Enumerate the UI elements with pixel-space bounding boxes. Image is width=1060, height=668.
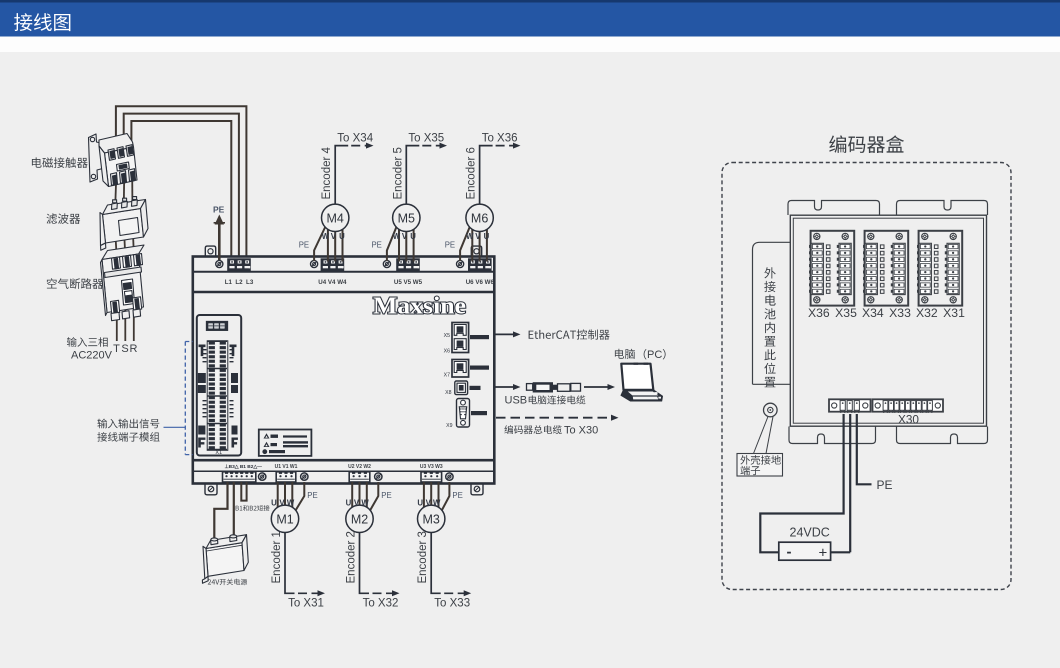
svg-text:To X30: To X30: [564, 424, 598, 436]
svg-text:To X34: To X34: [337, 132, 373, 144]
svg-text:AC220V: AC220V: [71, 350, 113, 362]
drive face bottom line: [194, 459, 495, 462]
label 24V开关电源: [208, 579, 247, 586]
terminal block U2 V2 W2: [349, 472, 370, 482]
label 端子: [741, 466, 761, 475]
terminal block power/regen B1 B2: [223, 472, 256, 482]
terminal block U1 V1 W1: [276, 472, 296, 482]
wire X30 to 24VDC minus: [760, 414, 843, 552]
svg-text:T: T: [113, 343, 120, 355]
encoder unit bottom flange: [789, 427, 876, 444]
svg-text:PE: PE: [213, 205, 225, 215]
label B3 B1 B2 terminals: [225, 464, 263, 470]
svg-text:R: R: [130, 343, 138, 355]
svg-text:U3 V3 W3: U3 V3 W3: [420, 464, 443, 470]
battery compartment strip: [753, 242, 791, 384]
I/O terminal module X1: [197, 315, 241, 456]
chassis ground terminal: [764, 403, 778, 417]
PE screw terminal bottom M1: [301, 473, 308, 480]
arrowhead X32: [392, 590, 400, 596]
PE screw terminal M4: [311, 260, 318, 267]
label 电脑(PC): [615, 349, 635, 359]
arrow to USB cable: [496, 384, 521, 390]
terminal block U5 V5 W5: [396, 258, 420, 271]
svg-text:X9: X9: [446, 423, 452, 429]
svg-text:W: W: [393, 232, 401, 241]
label 编码器总电缆: [504, 425, 562, 434]
svg-text:PE: PE: [877, 478, 893, 492]
svg-text:U: U: [339, 232, 345, 241]
USB cable: [527, 382, 581, 392]
motor M5: [393, 204, 420, 231]
wires drive to motor M2: [352, 482, 378, 511]
arrow to EtherCAT controller: [496, 331, 521, 337]
wires motor M5 to drive: [387, 226, 414, 262]
label 空气断路器: [47, 278, 103, 289]
svg-text:Encoder 5: Encoder 5: [392, 147, 404, 199]
terminal block L1 L2 L3: [227, 258, 251, 271]
7-seg display: [208, 323, 224, 328]
arrow USB cable to PC: [584, 384, 615, 390]
wires drive to motor M1: [278, 482, 305, 511]
svg-text:U4 V4 W4: U4 V4 W4: [318, 279, 347, 286]
encoder unit bottom flange: [897, 427, 988, 444]
drive mounting tab bottom-left: [205, 483, 217, 495]
title 编码器盒: [829, 135, 904, 153]
PE screw terminal main: [216, 260, 223, 267]
svg-text:Encoder 1: Encoder 1: [271, 531, 283, 583]
svg-text:U5 V5 W5: U5 V5 W5: [394, 279, 423, 286]
svg-text:W: W: [361, 499, 369, 508]
terminal block U6 V6 W6: [468, 258, 492, 271]
X30 terminal block right: [873, 399, 944, 411]
svg-text:V: V: [402, 232, 408, 241]
wire contactor to filter: [115, 174, 132, 207]
svg-text:M6: M6: [471, 211, 488, 225]
wire 24V supply -: [233, 482, 235, 535]
encoder cable dashed to X33: [444, 592, 464, 594]
svg-text:U: U: [484, 232, 490, 241]
svg-text:24VDC: 24VDC: [790, 526, 830, 540]
svg-text:（PC）: （PC）: [636, 348, 673, 361]
wires drive to motor M3: [424, 482, 450, 511]
svg-text:L1 L2 L3: L1 L2 L3: [225, 279, 254, 286]
motor M6: [466, 204, 493, 231]
wire encoder 5 feed: [406, 146, 419, 205]
wire 24V supply +: [214, 482, 227, 540]
svg-text:Encoder 4: Encoder 4: [321, 146, 333, 199]
wire breaker to T S R: [117, 308, 134, 341]
svg-text:-: -: [787, 544, 792, 561]
encoder cable dashed to X31: [298, 592, 318, 594]
drive face top line: [194, 291, 495, 293]
svg-text:Encoder 6: Encoder 6: [466, 147, 478, 199]
svg-text:X6: X6: [444, 349, 450, 355]
svg-text:X8: X8: [445, 390, 451, 396]
svg-text:Encoder 3: Encoder 3: [417, 531, 429, 583]
svg-text:PE: PE: [371, 241, 381, 250]
PE screw terminal bottom M2: [375, 473, 382, 480]
label 电磁接触器: [32, 157, 88, 168]
svg-text:U: U: [417, 499, 423, 508]
drive bottom terminal band line: [194, 470, 495, 472]
svg-text:PE: PE: [381, 491, 391, 500]
X9 port text: [471, 411, 487, 415]
svg-text:U2 V2 W2: U2 V2 W2: [348, 464, 371, 470]
svg-text:V: V: [475, 232, 481, 241]
wire filter to breaker: [116, 234, 134, 252]
title text 接线图: [14, 13, 70, 31]
label 滤波器: [47, 213, 81, 224]
X30 terminal block left (24V/PE): [829, 399, 871, 411]
EtherCAT port text: [470, 335, 489, 339]
servo drive body: [193, 257, 495, 484]
svg-text:W: W: [433, 499, 441, 508]
svg-text:⊥B3△ B1 B2△—: ⊥B3△ B1 B2△—: [225, 464, 263, 470]
24V switching power supply: [202, 535, 248, 584]
svg-text:W: W: [287, 499, 295, 508]
motor M3: [418, 505, 445, 532]
drive mounting tab top-right: [471, 246, 481, 256]
svg-text:X5: X5: [444, 333, 450, 339]
svg-text:M4: M4: [327, 211, 344, 225]
encoder cable dashed to X34: [351, 145, 366, 147]
label 外接电池内置此位置 (vertical): [764, 267, 776, 387]
module side marks: [198, 345, 238, 448]
PE screw terminal M6: [457, 260, 464, 267]
svg-text:U: U: [410, 232, 416, 241]
svg-text:To X32: To X32: [363, 598, 399, 610]
svg-text:X7: X7: [444, 373, 450, 379]
svg-text:S: S: [121, 343, 128, 355]
encoder box dashed border: [722, 163, 1011, 590]
svg-text:To X31: To X31: [288, 598, 324, 610]
encoder cable dashed to X36: [496, 145, 514, 147]
label 输入输出信号: [97, 419, 159, 429]
X8 port text: [470, 386, 481, 390]
encoder unit top flange: [897, 201, 988, 216]
svg-text:U6 V6 W6: U6 V6 W6: [466, 279, 495, 286]
svg-text:M3: M3: [423, 512, 440, 526]
arrowhead X34: [366, 143, 374, 149]
label EtherCAT控制器: [529, 329, 610, 339]
wires motor M4 to drive: [314, 226, 342, 262]
24VDC supply: [779, 542, 831, 560]
svg-text:X35: X35: [835, 306, 857, 320]
svg-text:U: U: [271, 499, 277, 508]
wire L3 three-phase feed: [131, 121, 231, 258]
wire X30 to 24VDC plus: [831, 414, 851, 552]
encoder connector pair X34/X33: [865, 231, 909, 306]
terminal block U3 V3 W3: [421, 472, 442, 482]
drive mounting tab bottom-right: [471, 483, 483, 495]
svg-text:Maxsine: Maxsine: [373, 294, 466, 320]
svg-text:M1: M1: [276, 512, 293, 526]
encoder connector pair X36/X35: [811, 231, 855, 306]
ground callout leaders: [754, 417, 774, 454]
encoder unit body: [790, 215, 986, 426]
PE screw terminal bottom M3: [446, 473, 453, 480]
connector X9 DB9: [457, 399, 470, 428]
encoder cable dashed to X32: [373, 592, 393, 594]
motor M1: [271, 505, 298, 532]
svg-text:To X36: To X36: [482, 132, 518, 144]
svg-text:X32: X32: [916, 306, 938, 320]
terminal block U4 V4 W4: [321, 258, 345, 271]
arrowhead X35: [440, 143, 448, 149]
svg-text:X30: X30: [898, 413, 919, 427]
air circuit breaker: [101, 245, 145, 321]
svg-text:U1 V1 W1: U1 V1 W1: [275, 464, 298, 470]
module pin columns: [209, 342, 226, 450]
wire X30 PE: [857, 414, 872, 484]
motor M4: [322, 204, 349, 231]
svg-text:M5: M5: [398, 211, 415, 225]
arrowhead X36: [513, 143, 521, 149]
svg-text:+: +: [819, 545, 828, 562]
svg-text:X1: X1: [215, 450, 222, 456]
label 外壳接地: [740, 455, 780, 465]
svg-text:M2: M2: [351, 512, 368, 526]
warning label: [259, 430, 312, 456]
svg-text:W: W: [466, 232, 474, 241]
encoder unit top flange: [788, 201, 880, 216]
svg-text:V: V: [279, 499, 285, 508]
wires motor M6 to drive: [460, 226, 487, 262]
svg-text:X31: X31: [943, 306, 965, 320]
connector X8 USB: [455, 381, 468, 395]
drive mounting tab top-left: [205, 246, 215, 256]
svg-text:V: V: [426, 499, 432, 508]
wire L2 three-phase feed: [124, 114, 239, 258]
label 电脑连接电缆: [529, 395, 586, 404]
laptop PC: [621, 363, 663, 401]
label 输入三相: [67, 337, 108, 347]
motor M2: [346, 505, 373, 532]
drive top terminal band line: [194, 271, 495, 273]
connector X5/X6 dual EtherCAT: [452, 323, 469, 353]
I/O module callout bracket: [164, 342, 193, 455]
svg-text:X36: X36: [808, 306, 830, 320]
svg-text:Encoder 2: Encoder 2: [346, 531, 358, 583]
svg-text:To X33: To X33: [434, 598, 470, 610]
PE arrow (drive ground): [214, 215, 225, 263]
label 接线端子模组: [97, 432, 159, 442]
PE screw terminal M5: [383, 260, 390, 267]
svg-text:PE: PE: [445, 241, 455, 250]
PE screw terminal bottom power: [259, 473, 266, 480]
wire encoder 3 feed: [431, 532, 441, 593]
electromagnetic contactor: [89, 134, 138, 187]
svg-text:PE: PE: [299, 241, 309, 250]
B1 B2 short jumper: [241, 482, 246, 501]
svg-text:V: V: [331, 232, 337, 241]
connector X7 EtherCAT: [452, 360, 469, 378]
svg-text:USB: USB: [505, 395, 528, 407]
wire encoder 1 feed: [285, 532, 295, 593]
X7 port text: [470, 366, 489, 370]
encoder connector pair X32/X31: [919, 231, 963, 306]
svg-text:PE: PE: [452, 491, 462, 500]
svg-text:V: V: [354, 499, 360, 508]
svg-text:X34: X34: [862, 306, 884, 320]
svg-text:X33: X33: [889, 306, 911, 320]
encoder cable dashed to X35: [422, 145, 440, 147]
ground label box: [737, 454, 783, 477]
arrowhead X33: [464, 590, 472, 596]
svg-text:W: W: [322, 232, 330, 241]
wire L1 three-phase feed: [116, 106, 247, 258]
svg-text:To X35: To X35: [408, 132, 444, 144]
svg-text:PE: PE: [307, 491, 317, 500]
filter: [100, 197, 148, 251]
svg-text:U: U: [346, 499, 352, 508]
wire encoder 2 feed: [360, 532, 370, 593]
title banner: [0, 0, 1060, 3]
wire encoder 4 feed: [335, 146, 348, 205]
label B1和B2短接: [236, 505, 270, 511]
encoder trunk cable dashed to X30: [496, 415, 619, 421]
wire encoder 6 feed: [480, 146, 493, 205]
arrowhead X31: [318, 590, 326, 596]
